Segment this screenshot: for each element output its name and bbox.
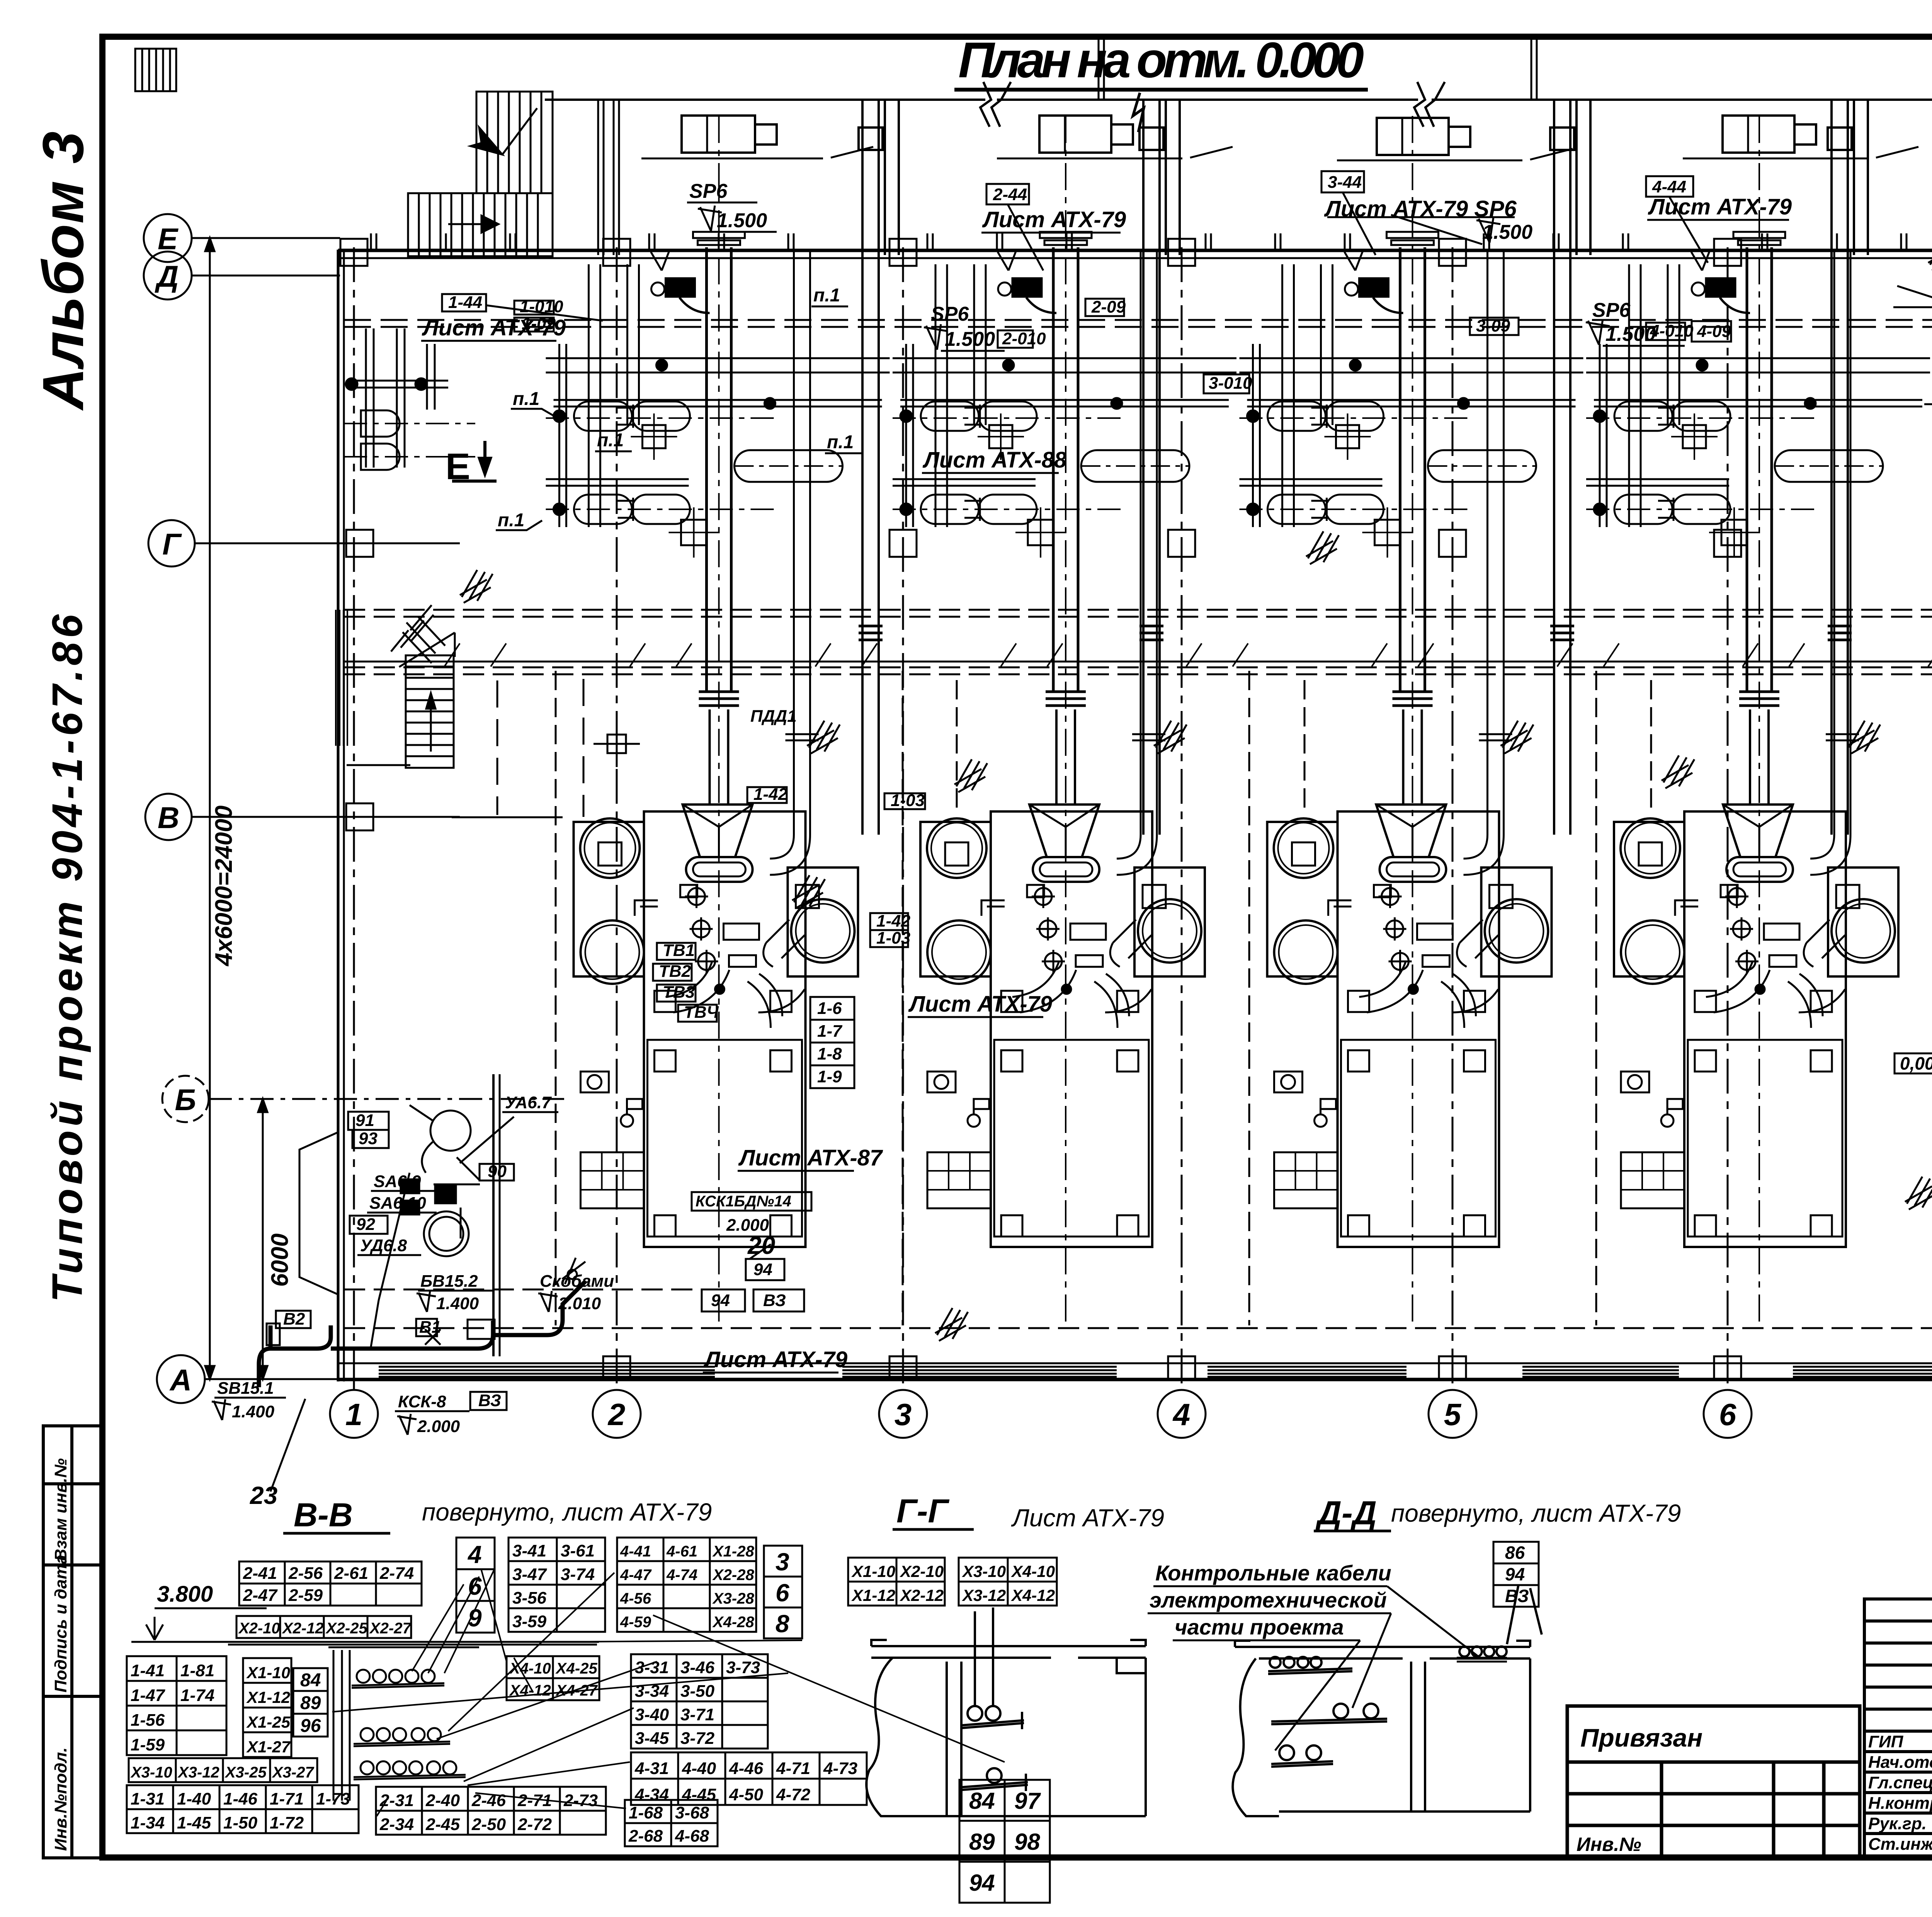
svg-text:1-03: 1-03 <box>891 791 925 810</box>
svg-text:Х2-12: Х2-12 <box>282 1620 324 1637</box>
svg-text:0,000: 0,000 <box>1900 1053 1932 1073</box>
svg-text:Лист АТХ-87: Лист АТХ-87 <box>738 1145 883 1170</box>
svg-text:части проекта: части проекта <box>1175 1615 1344 1639</box>
svg-text:Х1-25: Х1-25 <box>246 1713 291 1731</box>
svg-text:1.500: 1.500 <box>945 328 995 350</box>
svg-text:Х1-10: Х1-10 <box>246 1664 290 1682</box>
svg-text:6000: 6000 <box>267 1233 293 1287</box>
svg-text:Х2-12: Х2-12 <box>900 1586 944 1604</box>
svg-text:1-31: 1-31 <box>131 1789 165 1808</box>
svg-text:В2: В2 <box>283 1310 305 1328</box>
svg-text:Х4-25: Х4-25 <box>555 1660 597 1677</box>
svg-text:Альбом 3: Альбом 3 <box>31 131 95 411</box>
svg-text:4: 4 <box>1172 1397 1190 1432</box>
svg-text:92: 92 <box>356 1215 375 1234</box>
svg-text:3: 3 <box>776 1548 789 1576</box>
svg-text:20: 20 <box>747 1232 775 1259</box>
svg-text:Взам инв.№: Взам инв.№ <box>51 1458 70 1561</box>
svg-text:4х6000=24000: 4х6000=24000 <box>211 805 237 967</box>
svg-text:3-44: 3-44 <box>1328 173 1362 192</box>
svg-text:1.500: 1.500 <box>717 209 767 232</box>
svg-text:Х2-28: Х2-28 <box>712 1567 754 1584</box>
svg-text:Х1-10: Х1-10 <box>851 1562 895 1580</box>
svg-text:86: 86 <box>1505 1543 1525 1563</box>
svg-text:1-47: 1-47 <box>131 1686 166 1705</box>
svg-text:4-56: 4-56 <box>620 1590 651 1607</box>
svg-text:1-8: 1-8 <box>817 1044 842 1063</box>
svg-text:89: 89 <box>969 1829 995 1855</box>
svg-text:Рук.гр.: Рук.гр. <box>1868 1814 1927 1833</box>
svg-text:УД6.8: УД6.8 <box>360 1236 407 1255</box>
svg-text:1-42: 1-42 <box>753 785 788 804</box>
svg-text:Инв.№подл.: Инв.№подл. <box>51 1747 70 1851</box>
svg-text:Е: Е <box>158 222 179 256</box>
svg-text:3-74: 3-74 <box>561 1565 595 1584</box>
svg-text:Лист АТХ-88: Лист АТХ-88 <box>922 447 1067 473</box>
svg-text:Х1-12: Х1-12 <box>246 1688 290 1706</box>
svg-text:2-34: 2-34 <box>379 1815 414 1834</box>
svg-text:1-9: 1-9 <box>817 1067 842 1086</box>
svg-text:2-61: 2-61 <box>334 1564 368 1583</box>
svg-text:Б: Б <box>175 1083 196 1117</box>
svg-text:3: 3 <box>895 1397 912 1432</box>
svg-text:3-46: 3-46 <box>680 1658 715 1677</box>
svg-text:УА6.7: УА6.7 <box>505 1093 552 1112</box>
svg-text:4-41: 4-41 <box>620 1543 651 1560</box>
svg-text:4-50: 4-50 <box>729 1785 764 1804</box>
svg-text:1.400: 1.400 <box>232 1402 275 1421</box>
svg-text:1-46: 1-46 <box>223 1789 258 1808</box>
svg-text:3-72: 3-72 <box>680 1729 715 1748</box>
svg-text:2-73: 2-73 <box>563 1791 598 1810</box>
svg-text:1-41: 1-41 <box>131 1661 165 1680</box>
svg-text:2-41: 2-41 <box>243 1564 277 1583</box>
svg-text:Х4-10: Х4-10 <box>1011 1562 1055 1580</box>
svg-text:п.1: п.1 <box>498 510 524 531</box>
svg-text:1-7: 1-7 <box>817 1022 843 1041</box>
svg-text:ГИП: ГИП <box>1868 1732 1904 1751</box>
svg-text:2-45: 2-45 <box>425 1815 460 1834</box>
svg-text:90: 90 <box>488 1162 507 1181</box>
svg-text:2-72: 2-72 <box>517 1815 552 1834</box>
svg-text:6: 6 <box>1719 1397 1736 1432</box>
svg-text:3-41: 3-41 <box>512 1541 546 1560</box>
svg-text:SA6.9: SA6.9 <box>374 1172 421 1191</box>
svg-text:ПДД1: ПДД1 <box>750 707 797 726</box>
svg-text:4-73: 4-73 <box>823 1759 857 1778</box>
svg-text:3.800: 3.800 <box>157 1582 213 1607</box>
svg-text:3-73: 3-73 <box>726 1658 760 1677</box>
svg-text:ТВ1: ТВ1 <box>663 941 695 960</box>
svg-text:84: 84 <box>300 1670 321 1691</box>
svg-text:3-56: 3-56 <box>512 1589 547 1607</box>
svg-text:3-09: 3-09 <box>1476 316 1510 335</box>
svg-text:4-68: 4-68 <box>675 1827 709 1846</box>
svg-text:Х2-27: Х2-27 <box>369 1620 412 1637</box>
svg-text:Х3-10: Х3-10 <box>130 1764 172 1781</box>
svg-text:96: 96 <box>300 1716 321 1736</box>
svg-text:2-44: 2-44 <box>993 185 1027 204</box>
svg-text:SР6: SР6 <box>689 180 728 202</box>
svg-text:1-34: 1-34 <box>131 1813 165 1832</box>
svg-text:2-59: 2-59 <box>288 1586 323 1605</box>
svg-text:2: 2 <box>607 1397 626 1432</box>
svg-text:Лист АТХ-79: Лист АТХ-79 <box>703 1347 847 1372</box>
svg-text:Х4-28: Х4-28 <box>712 1614 754 1631</box>
svg-text:4-010: 4-010 <box>1650 321 1694 340</box>
svg-text:Х2-10: Х2-10 <box>900 1562 944 1580</box>
svg-text:4-45: 4-45 <box>682 1785 716 1804</box>
svg-text:2-010: 2-010 <box>1002 329 1046 348</box>
svg-text:89: 89 <box>300 1693 321 1713</box>
svg-text:1-03: 1-03 <box>876 929 910 947</box>
svg-text:ВЗ: ВЗ <box>763 1291 786 1310</box>
svg-text:1-81: 1-81 <box>180 1661 214 1680</box>
svg-text:1-6: 1-6 <box>817 999 842 1018</box>
svg-text:Х3-27: Х3-27 <box>272 1764 314 1781</box>
svg-text:п.1: п.1 <box>813 285 840 306</box>
svg-text:электротехнической: электротехнической <box>1150 1588 1387 1612</box>
svg-text:1.500: 1.500 <box>1605 323 1656 345</box>
svg-text:4-46: 4-46 <box>729 1759 764 1778</box>
svg-text:Х3-10: Х3-10 <box>962 1562 1006 1580</box>
svg-text:Лист АТХ-79: Лист АТХ-79 <box>908 992 1052 1017</box>
svg-text:SР6: SР6 <box>931 303 969 325</box>
svg-text:п.1: п.1 <box>513 389 539 409</box>
svg-text:3-50: 3-50 <box>680 1682 715 1701</box>
svg-text:6: 6 <box>776 1579 789 1607</box>
svg-text:Х2-10: Х2-10 <box>238 1620 280 1637</box>
svg-text:1-44: 1-44 <box>448 293 482 312</box>
svg-text:Привязан: Привязан <box>1580 1723 1702 1752</box>
svg-text:Д: Д <box>155 259 179 293</box>
svg-text:Нач.отд.: Нач.отд. <box>1868 1753 1932 1772</box>
svg-text:БВ15.2: БВ15.2 <box>420 1272 478 1291</box>
svg-text:1-59: 1-59 <box>131 1735 165 1754</box>
svg-text:1-40: 1-40 <box>177 1789 211 1808</box>
svg-text:SA6.10: SA6.10 <box>369 1194 426 1213</box>
svg-text:Лист АТХ-79: Лист АТХ-79 <box>422 315 566 340</box>
svg-text:В: В <box>158 801 179 835</box>
svg-text:ТВ2: ТВ2 <box>659 962 691 981</box>
svg-text:98: 98 <box>1014 1829 1040 1855</box>
svg-text:2-74: 2-74 <box>379 1564 414 1583</box>
svg-text:повернуто, лист АТХ-79: повернуто, лист АТХ-79 <box>422 1498 712 1526</box>
svg-text:SР6: SР6 <box>1592 299 1631 321</box>
svg-text:Ст.инж.: Ст.инж. <box>1868 1835 1932 1854</box>
svg-text:3-40: 3-40 <box>635 1705 669 1724</box>
svg-text:Х1-28: Х1-28 <box>712 1543 754 1560</box>
svg-text:94: 94 <box>1505 1564 1525 1584</box>
svg-text:Х3-12: Х3-12 <box>177 1764 219 1781</box>
svg-text:3-71: 3-71 <box>680 1705 714 1724</box>
svg-text:1-71: 1-71 <box>270 1789 304 1808</box>
svg-text:КСК-8: КСК-8 <box>398 1392 446 1411</box>
svg-text:1.400: 1.400 <box>436 1294 479 1313</box>
svg-text:п.1: п.1 <box>597 430 624 451</box>
svg-text:1-50: 1-50 <box>223 1813 258 1832</box>
svg-text:2-50: 2-50 <box>471 1815 506 1834</box>
svg-text:4-59: 4-59 <box>620 1614 651 1631</box>
svg-text:2-31: 2-31 <box>379 1791 414 1810</box>
svg-text:Типовой проект 904-1-67.86: Типовой проект 904-1-67.86 <box>44 614 91 1302</box>
svg-text:Н.контр.: Н.контр. <box>1868 1794 1932 1813</box>
svg-text:Подпись и дата: Подпись и дата <box>51 1555 70 1692</box>
svg-text:1-56: 1-56 <box>131 1711 165 1730</box>
svg-text:Х4-10: Х4-10 <box>509 1660 551 1677</box>
svg-text:5: 5 <box>1444 1397 1462 1432</box>
svg-text:4-74: 4-74 <box>666 1567 697 1584</box>
svg-text:Лист АТХ-79: Лист АТХ-79 <box>1011 1504 1164 1532</box>
svg-text:SВ15.1: SВ15.1 <box>217 1379 274 1398</box>
svg-text:97: 97 <box>1014 1788 1041 1814</box>
svg-text:4-40: 4-40 <box>682 1759 716 1778</box>
svg-text:п.1: п.1 <box>827 432 854 452</box>
svg-text:3-010: 3-010 <box>1209 374 1252 393</box>
svg-text:Х4-12: Х4-12 <box>1011 1586 1055 1604</box>
svg-text:1-68: 1-68 <box>629 1803 663 1822</box>
svg-text:2-47: 2-47 <box>243 1586 278 1605</box>
svg-text:3-45: 3-45 <box>635 1729 669 1748</box>
svg-text:Х3-25: Х3-25 <box>224 1764 267 1781</box>
svg-text:Д-Д: Д-Д <box>1315 1495 1377 1532</box>
svg-text:4: 4 <box>467 1541 482 1568</box>
svg-text:Лист АТХ-79: Лист АТХ-79 <box>982 207 1126 232</box>
svg-text:3-61: 3-61 <box>561 1541 595 1560</box>
svg-text:2.000: 2.000 <box>417 1417 460 1436</box>
svg-text:Х1-12: Х1-12 <box>851 1586 895 1604</box>
svg-text:Скобами: Скобами <box>540 1272 614 1291</box>
svg-text:4-31: 4-31 <box>634 1759 669 1778</box>
svg-text:4-34: 4-34 <box>634 1785 669 1804</box>
svg-text:4-72: 4-72 <box>776 1785 811 1804</box>
svg-text:2-09: 2-09 <box>1091 298 1126 316</box>
svg-text:3-47: 3-47 <box>512 1565 548 1584</box>
svg-text:84: 84 <box>969 1788 995 1814</box>
svg-text:Х1-27: Х1-27 <box>246 1738 291 1756</box>
svg-text:3-68: 3-68 <box>675 1803 709 1822</box>
svg-text:1: 1 <box>345 1397 363 1432</box>
svg-text:Гл.спец: Гл.спец <box>1868 1773 1932 1792</box>
svg-text:94: 94 <box>711 1291 730 1310</box>
svg-text:4-71: 4-71 <box>776 1759 810 1778</box>
svg-text:2-68: 2-68 <box>628 1827 663 1846</box>
svg-text:91: 91 <box>355 1111 374 1130</box>
svg-text:КСК1БД№14: КСК1БД№14 <box>696 1193 791 1210</box>
svg-text:Инв.№: Инв.№ <box>1577 1834 1641 1855</box>
svg-text:Х2-25: Х2-25 <box>325 1620 367 1637</box>
svg-text:Х3-28: Х3-28 <box>712 1590 754 1607</box>
svg-text:2-56: 2-56 <box>288 1564 323 1583</box>
svg-text:2.010: 2.010 <box>558 1294 601 1313</box>
svg-text:Х3-12: Х3-12 <box>962 1586 1006 1604</box>
svg-text:План на отм. 0.000: План на отм. 0.000 <box>958 32 1364 88</box>
svg-text:1-72: 1-72 <box>270 1813 304 1832</box>
svg-text:1-45: 1-45 <box>177 1813 211 1832</box>
svg-text:Контрольные кабели: Контрольные кабели <box>1155 1561 1391 1585</box>
svg-text:В1: В1 <box>419 1318 441 1337</box>
svg-text:4-44: 4-44 <box>1652 177 1686 196</box>
svg-text:А: А <box>169 1363 192 1397</box>
svg-text:8: 8 <box>776 1610 789 1638</box>
svg-text:ТВ3: ТВ3 <box>663 983 695 1002</box>
svg-text:3-59: 3-59 <box>512 1612 547 1631</box>
svg-text:ТВЧ: ТВЧ <box>684 1003 719 1022</box>
svg-text:В-В: В-В <box>294 1497 353 1534</box>
svg-text:94: 94 <box>753 1260 772 1279</box>
svg-text:2.000: 2.000 <box>726 1216 769 1235</box>
svg-text:4-61: 4-61 <box>666 1543 697 1560</box>
svg-text:93: 93 <box>359 1129 378 1148</box>
svg-text:94: 94 <box>969 1870 995 1896</box>
svg-text:1-74: 1-74 <box>180 1686 214 1705</box>
svg-text:Г: Г <box>162 527 182 561</box>
svg-text:4-09: 4-09 <box>1697 322 1731 341</box>
svg-text:ВЗ: ВЗ <box>478 1391 501 1410</box>
svg-text:повернуто, лист АТХ-79: повернуто, лист АТХ-79 <box>1391 1499 1681 1527</box>
svg-text:4-47: 4-47 <box>620 1567 652 1584</box>
svg-text:1-42: 1-42 <box>876 912 911 930</box>
svg-text:Г-Г: Г-Г <box>896 1493 949 1530</box>
svg-text:2-40: 2-40 <box>425 1791 460 1810</box>
